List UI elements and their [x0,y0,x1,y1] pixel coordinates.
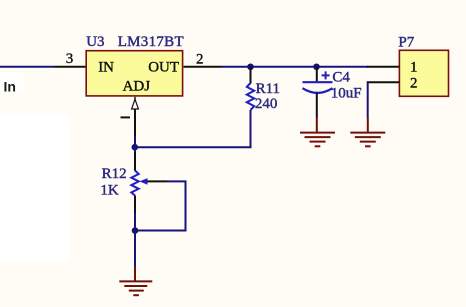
capacitor C4 top plate [303,81,333,83]
ground symbol P7 [350,133,385,147]
wire ADJ junction to R11 bottom [135,120,251,147]
wire ADJ to junction [134,137,136,148]
ground stub P7 [367,118,369,132]
svg-text:2: 2 [196,51,204,67]
node junction C4 top [313,63,320,70]
node ADJ junction [132,144,139,151]
svg-text:IN: IN [98,59,114,75]
ADJ arrowhead open triangle [132,99,139,109]
svg-text:3: 3 [66,51,74,67]
svg-text:2: 2 [410,75,418,91]
wire wiper loop [135,181,186,230]
ADJ pin stub with arrow [134,97,136,100]
minus sign marker [121,116,131,118]
svg-text:R12: R12 [102,166,127,182]
svg-text:R11: R11 [256,81,280,97]
wire P7 pin2 to ground [367,83,369,118]
pin 2 of U3 [184,66,222,68]
C4 bottom lead [316,93,318,118]
wire R12 bottom to junction [134,213,136,231]
ground symbol R12 [119,281,152,295]
svg-text:240: 240 [255,96,278,112]
svg-text:1K: 1K [100,182,119,198]
regulator U3 body [86,51,182,96]
ground stub C4 [316,118,318,132]
pin 1 of P7 [367,66,400,68]
wire OUT to P7 [222,66,368,68]
wire In net to pin 3 [0,66,55,68]
wiper pin lead [147,180,167,182]
connector P7 body [399,50,448,96]
white panel rectangle lower-left [0,113,70,263]
svg-text:OUT: OUT [148,59,179,75]
R12 top lead [134,147,136,152]
ground symbol C4 [300,133,335,147]
C4 top lead [316,67,318,82]
svg-text:U3: U3 [86,34,104,50]
R11 top lead [250,67,252,84]
svg-text:ADJ: ADJ [123,78,151,94]
svg-text:1: 1 [410,60,418,76]
resistor R11 [247,83,254,110]
pin 3 of U3 [55,66,88,68]
node junction R11 top [247,63,254,70]
svg-text:10uF: 10uF [331,85,362,101]
wire junction to ground [134,231,136,267]
C4 plus sign [322,71,330,79]
potentiometer R12 [131,171,138,196]
svg-text:P7: P7 [398,34,414,50]
svg-text:In: In [4,78,16,94]
ground stub R12 [134,266,136,281]
R11 bottom lead [250,110,252,121]
svg-text:C4: C4 [332,70,350,86]
svg-text:LM317BT: LM317BT [118,34,184,50]
ADJ pin lead [134,109,136,137]
node R12 bottom junction [132,227,139,234]
R12 bottom lead [134,196,136,214]
R12 wiper arrow [140,178,148,185]
white label background behind In [0,73,24,92]
pin 2 of P7 [367,81,400,83]
capacitor C4 bottom plate arc [303,88,333,93]
